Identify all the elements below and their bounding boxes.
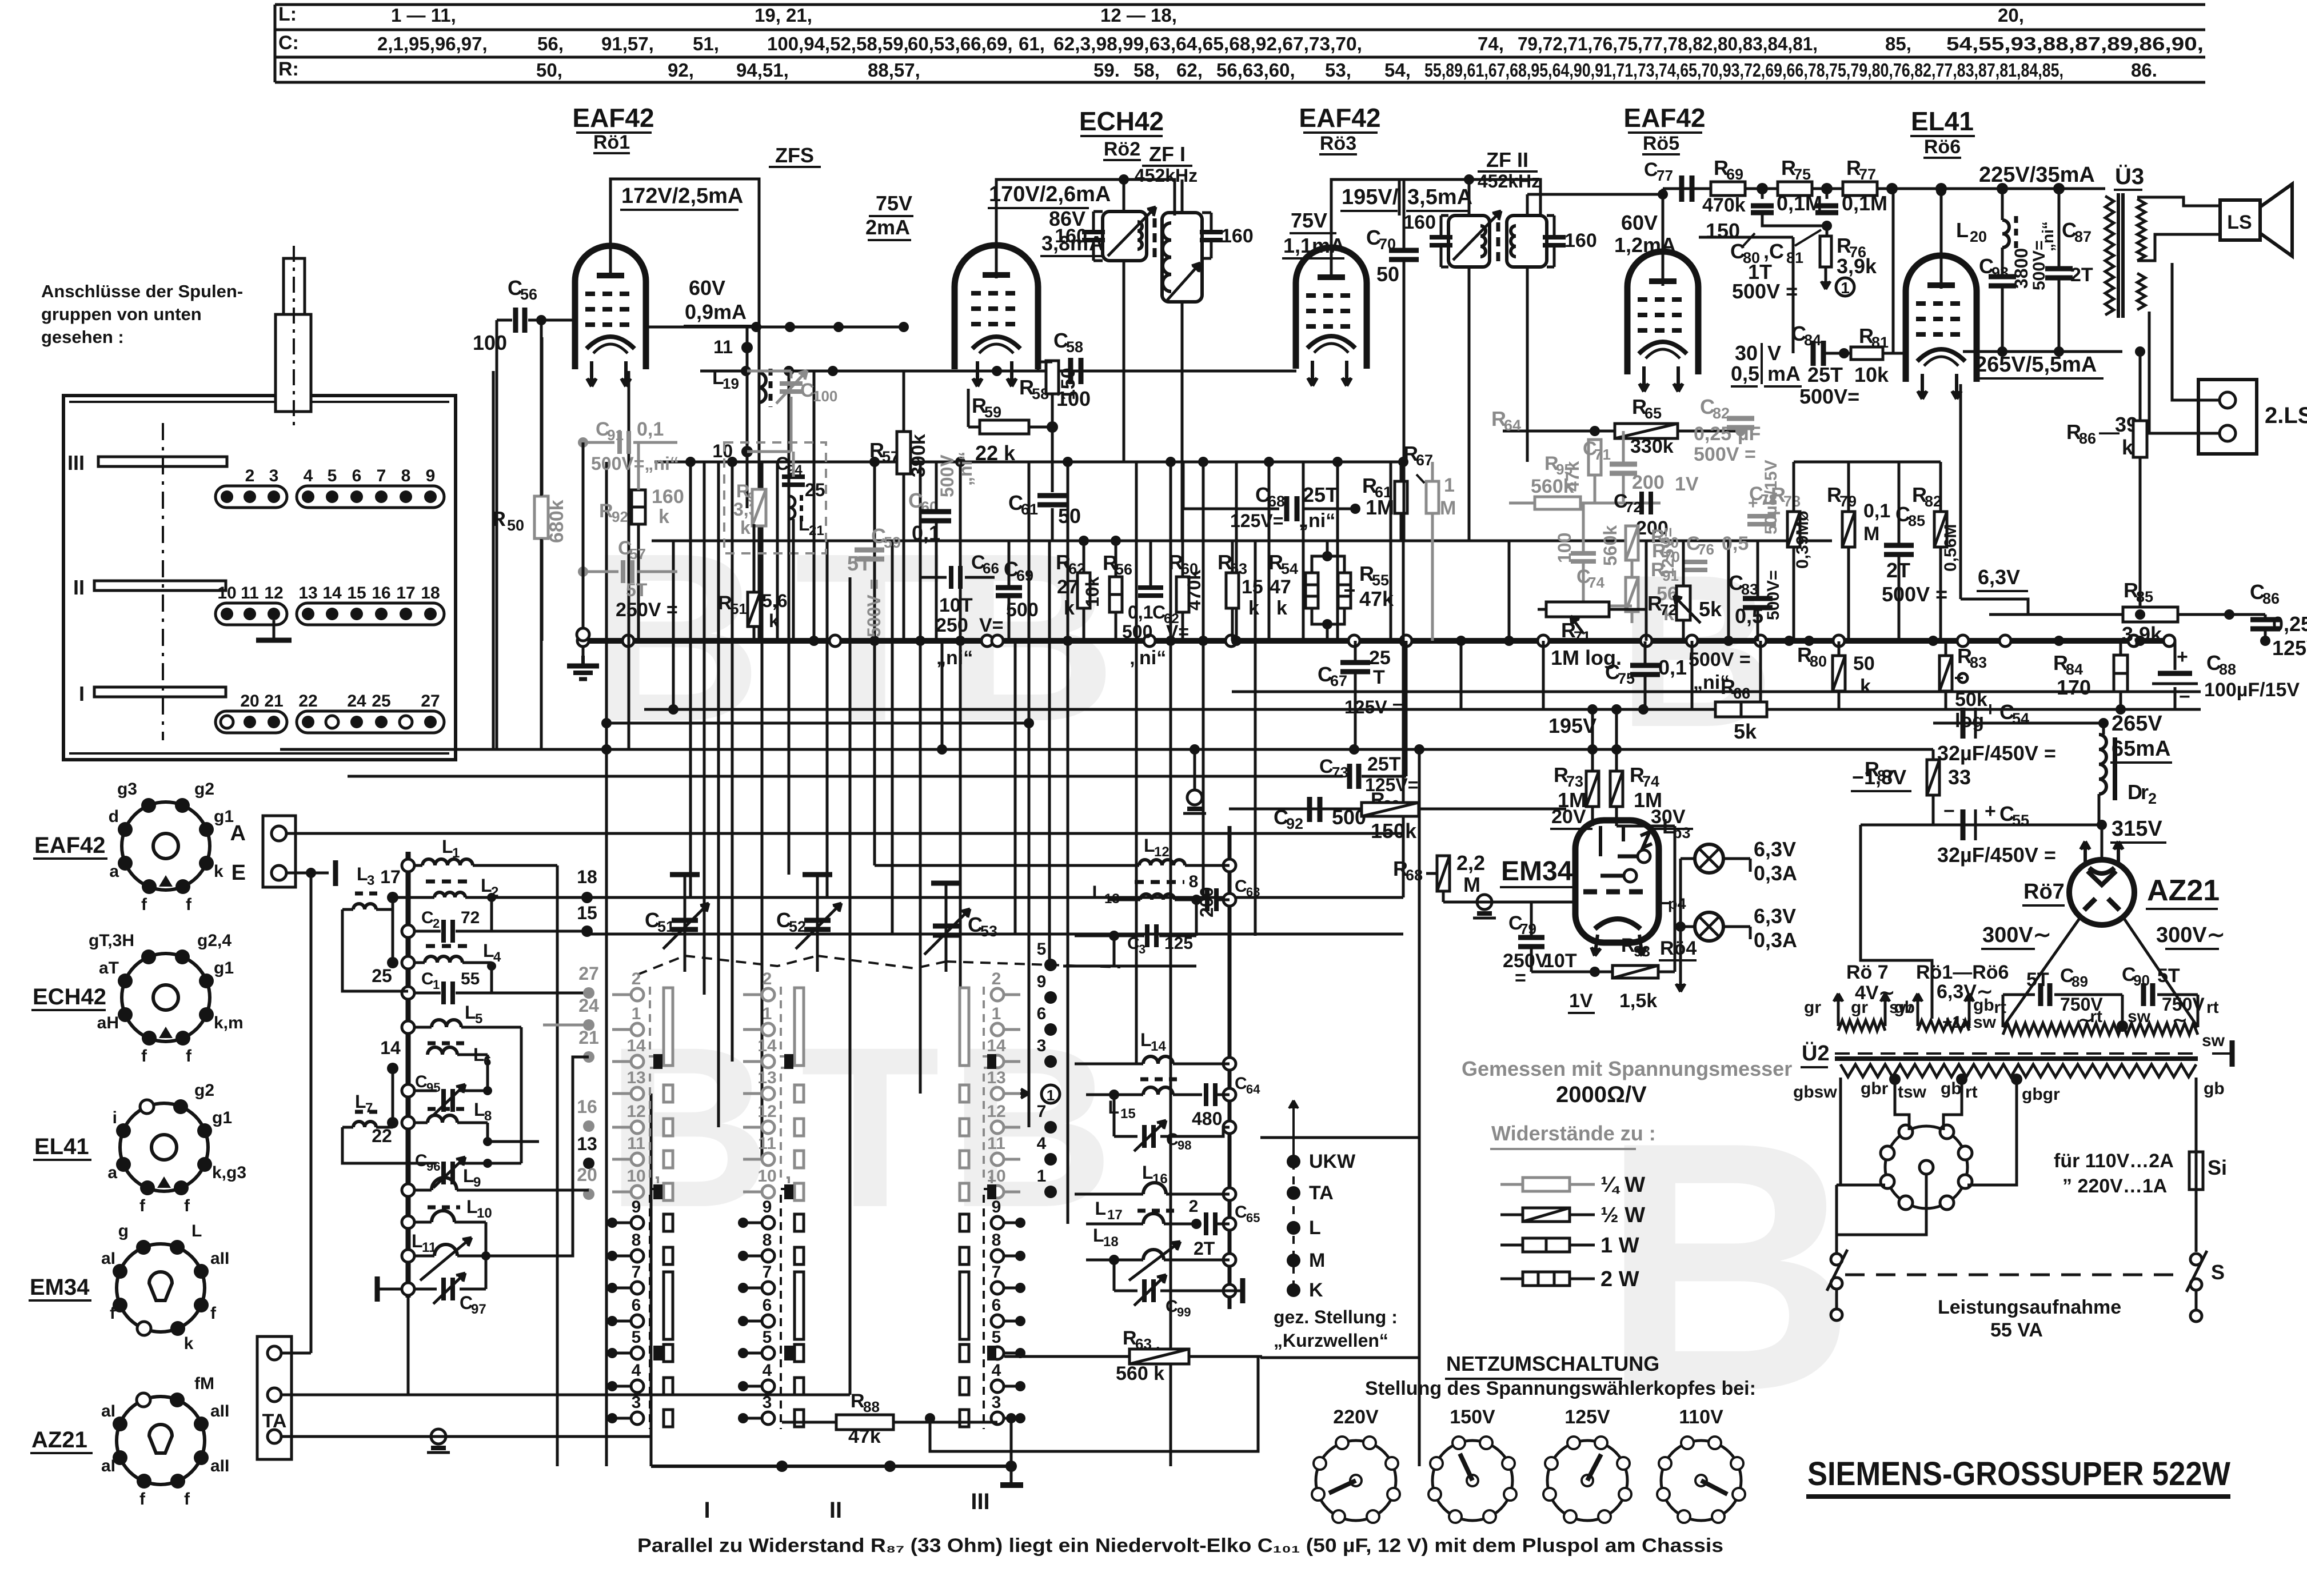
svg-text:560 k: 560 k: [1116, 1363, 1164, 1384]
ZF I tuning arrow: [1108, 207, 1156, 256]
wire R77 junction down: [1892, 189, 1895, 353]
svg-text:47k: 47k: [848, 1426, 881, 1447]
svg-text:5k: 5k: [1699, 597, 1722, 621]
svg-text:k: k: [1860, 676, 1871, 697]
node 22: [387, 1117, 398, 1128]
legend box: [1260, 1138, 1419, 1358]
svg-text:27: 27: [578, 963, 599, 984]
svg-text:11: 11: [241, 584, 259, 603]
node 27: [583, 987, 594, 999]
svg-text:SIEMENS-GROSSUPER 522W: SIEMENS-GROSSUPER 522W: [1807, 1455, 2230, 1493]
wire 17-25: [392, 897, 394, 963]
svg-text:54: 54: [1281, 560, 1298, 577]
svg-text:sw: sw: [2202, 1031, 2225, 1050]
svg-text:5T: 5T: [2026, 969, 2049, 991]
svg-text:,C: ,C: [1763, 240, 1784, 263]
svg-text:83: 83: [1741, 581, 1758, 598]
main ground bus (thick): [583, 638, 2172, 644]
wire 265V bus right: [2103, 641, 2104, 723]
svg-text:mA: mA: [1767, 362, 1801, 385]
svg-text:C: C: [1644, 159, 1658, 181]
svg-text:2: 2: [433, 916, 440, 931]
rotor rail (thick): [406, 852, 411, 1298]
svg-text:„ni“: „ni“: [1129, 647, 1166, 669]
svg-text:0,5: 0,5: [1735, 604, 1763, 628]
svg-text:1: 1: [1444, 474, 1455, 496]
wire y947: [652, 540, 1832, 542]
svg-text:27: 27: [421, 692, 440, 711]
svg-text:500V=„ni“: 500V=„ni“: [591, 453, 679, 474]
svg-text:12: 12: [1154, 844, 1170, 860]
svg-text:gb: gb: [2204, 1079, 2225, 1098]
svg-text:„Kurzwellen“: „Kurzwellen“: [1274, 1330, 1388, 1351]
antenna wire from A: [286, 832, 1403, 835]
wafer dashed body: [984, 987, 992, 1068]
svg-text:25T: 25T: [1367, 753, 1401, 775]
svg-text:24: 24: [578, 995, 599, 1016]
svg-text:330k: 330k: [1630, 436, 1674, 457]
svg-text:15: 15: [347, 584, 366, 603]
svg-text:0,1M: 0,1M: [1842, 191, 1887, 215]
svg-text:2: 2: [992, 969, 1001, 988]
svg-text:172V/2,5mA: 172V/2,5mA: [621, 184, 743, 208]
svg-text:Ü3: Ü3: [2115, 163, 2144, 189]
svg-text:C: C: [1166, 1130, 1179, 1149]
svg-text:g1: g1: [214, 959, 234, 977]
svg-text:L: L: [1095, 1198, 1106, 1219]
svg-text:L: L: [481, 875, 492, 896]
svg-text:10: 10: [987, 1167, 1005, 1186]
svg-text:200: 200: [1196, 887, 1217, 917]
svg-text:21: 21: [809, 523, 824, 538]
svg-text:L: L: [799, 514, 810, 534]
svg-text:A: A: [230, 821, 246, 845]
svg-text:+: +: [1985, 699, 1996, 720]
wire E down to TA: [310, 873, 313, 1353]
svg-text:+: +: [1748, 494, 1758, 513]
node 14: [387, 1063, 398, 1074]
svg-text:5: 5: [632, 1328, 641, 1347]
mains switch left: [1831, 1254, 1842, 1265]
svg-text:125V =: 125V =: [2272, 636, 2307, 660]
svg-text:2: 2: [632, 969, 641, 988]
node 13: [583, 1158, 594, 1169]
svg-text:4: 4: [763, 1361, 772, 1380]
svg-text:g2,4: g2,4: [197, 931, 232, 950]
svg-text:2mA: 2mA: [865, 216, 910, 239]
svg-text:85: 85: [2136, 588, 2153, 605]
svg-text:ZF II: ZF II: [1486, 148, 1528, 171]
wire C68 row: [1183, 508, 1279, 510]
svg-text:100,94,52,58,59,: 100,94,52,58,59,: [767, 33, 909, 54]
svg-text:13: 13: [757, 1068, 776, 1087]
svg-text:C: C: [1235, 1074, 1247, 1093]
node 20: [583, 1188, 594, 1200]
svg-text:85: 85: [1908, 512, 1925, 529]
svg-text:69: 69: [1016, 567, 1033, 584]
tube Rö2 ECH42: [955, 245, 1038, 369]
wire y808: [654, 461, 1403, 464]
svg-text:150k: 150k: [1371, 819, 1417, 843]
svg-text:53,: 53,: [1325, 59, 1351, 81]
svg-text:150: 150: [1706, 219, 1740, 242]
svg-text:56,63,60,: 56,63,60,: [1216, 59, 1295, 81]
svg-text:19: 19: [723, 375, 739, 392]
svg-text:54,55,93,88,87,89,86,90,: 54,55,93,88,87,89,86,90,: [1946, 33, 2204, 54]
svg-text:f: f: [184, 1196, 190, 1215]
svg-text:aII: aII: [210, 1249, 229, 1268]
svg-text:0,1: 0,1: [1128, 602, 1153, 623]
svg-text:78: 78: [1783, 493, 1801, 510]
svg-text:64: 64: [1246, 1082, 1260, 1096]
svg-text:3: 3: [1139, 942, 1145, 956]
transformer side wires: [1839, 1078, 1842, 1185]
wire y1358 C73 row: [348, 775, 1343, 778]
svg-text:74,: 74,: [1478, 33, 1504, 54]
svg-text:k: k: [769, 611, 779, 631]
svg-text:90: 90: [2133, 972, 2150, 989]
svg-text:2: 2: [763, 969, 772, 988]
svg-text:315V: 315V: [2112, 817, 2162, 841]
chassis symbol mid: [1477, 895, 1492, 909]
svg-text:51,: 51,: [693, 33, 719, 54]
circled 1 mark: [1041, 1085, 1060, 1103]
svg-text:12: 12: [626, 1102, 645, 1121]
svg-text:2 W: 2 W: [1600, 1267, 1639, 1291]
wire R64 row: [1503, 430, 1741, 433]
svg-text:59: 59: [884, 534, 901, 551]
300V wires: [2003, 917, 2081, 1027]
svg-text:3: 3: [1037, 1036, 1047, 1055]
switch wafer contacts: [1004, 993, 1020, 996]
svg-text:C:: C:: [278, 32, 299, 54]
pin group 20-21: [215, 711, 287, 733]
svg-text:560k: 560k: [1531, 476, 1574, 497]
primary taps: [1889, 1074, 1901, 1085]
svg-text:Rö4: Rö4: [1660, 937, 1697, 959]
svg-text:B: B: [949, 999, 1114, 1255]
wafer contact squares: [664, 1085, 673, 1102]
wafer index black squares: [653, 1054, 662, 1069]
svg-text:19, 21,: 19, 21,: [755, 5, 812, 26]
svg-text:k,g3: k,g3: [212, 1163, 246, 1182]
wire 18 right: [587, 896, 1403, 899]
svg-text:73: 73: [1332, 764, 1348, 781]
svg-text:68: 68: [1406, 867, 1423, 884]
svg-text:70: 70: [1663, 548, 1680, 565]
svg-text:74: 74: [1588, 574, 1604, 591]
svg-text:I: I: [704, 1498, 710, 1523]
wire EM34 bottom row: [1531, 971, 1675, 973]
svg-text:k: k: [214, 862, 223, 881]
wire R68 to EM34: [1442, 891, 1445, 902]
svg-text:20: 20: [240, 692, 259, 711]
svg-text:92: 92: [612, 508, 628, 525]
wire Rö6 cathode right: [1959, 384, 1962, 599]
svg-text:C: C: [1319, 756, 1334, 777]
svg-text:12: 12: [987, 1102, 1005, 1121]
ZF II core dashes: [1496, 222, 1500, 232]
svg-text:−: −: [2179, 686, 2190, 708]
svg-text:gr: gr: [1804, 998, 1821, 1017]
svg-text:NETZUMSCHALTUNG: NETZUMSCHALTUNG: [1446, 1352, 1659, 1375]
svg-text:160: 160: [1055, 225, 1087, 247]
svg-text:Leistungsaufnahme: Leistungsaufnahme: [1938, 1296, 2121, 1318]
svg-text:−: −: [1943, 699, 1955, 720]
svg-text:50: 50: [507, 517, 524, 534]
svg-text:Widerstände zu :: Widerstände zu :: [1491, 1122, 1656, 1145]
rail for L12 block: [1228, 826, 1232, 1309]
svg-text:22 k: 22 k: [975, 441, 1016, 465]
svg-text:M: M: [1463, 873, 1480, 896]
svg-text:21: 21: [264, 692, 283, 711]
svg-text:96: 96: [426, 1159, 440, 1174]
svg-text:4: 4: [632, 1361, 641, 1380]
svg-text:30: 30: [1735, 341, 1758, 365]
svg-text:g3: g3: [117, 780, 137, 799]
terminal 2.LS: [2198, 380, 2257, 454]
svg-text:5: 5: [1037, 940, 1047, 959]
svg-text:Si: Si: [2208, 1156, 2227, 1179]
svg-text:EM34: EM34: [30, 1275, 90, 1300]
svg-text:20: 20: [577, 1164, 597, 1185]
svg-text:75V: 75V: [1291, 209, 1327, 232]
svg-text:5T: 5T: [626, 580, 648, 600]
svg-text:2,1,95,96,97,: 2,1,95,96,97,: [377, 33, 488, 54]
svg-text:14: 14: [626, 1036, 646, 1055]
svg-text:1V: 1V: [1675, 473, 1699, 495]
svg-text:125V =: 125V =: [1344, 697, 1403, 717]
svg-text:=: =: [1745, 444, 1756, 465]
svg-text:ECH42: ECH42: [1079, 106, 1164, 136]
svg-text:„ni“: „ni“: [1299, 510, 1335, 532]
IF transformer ZF II secondary: [1507, 216, 1547, 267]
svg-text:g1: g1: [212, 1108, 232, 1127]
svg-text:300V∼: 300V∼: [2156, 923, 2225, 947]
svg-text:C: C: [415, 1151, 428, 1170]
svg-text:60V: 60V: [689, 276, 725, 300]
svg-text:62,: 62,: [1176, 59, 1203, 81]
svg-text:Rö1: Rö1: [593, 131, 630, 153]
svg-text:TA: TA: [1309, 1182, 1334, 1204]
svg-text:Rö6: Rö6: [1924, 136, 1961, 158]
svg-text:63: 63: [1246, 885, 1260, 899]
speaker wires: [2137, 196, 2138, 199]
svg-text:ECH42: ECH42: [33, 984, 106, 1010]
svg-text:3,9k: 3,9k: [1837, 254, 1877, 278]
svg-text:195V/: 195V/: [1342, 185, 1399, 209]
svg-text:gb: gb: [1941, 1079, 1962, 1098]
svg-text:C: C: [1235, 877, 1247, 896]
svg-text:9: 9: [992, 1198, 1001, 1216]
chassis bar at C99: [1230, 1290, 1243, 1292]
svg-text:27: 27: [1057, 576, 1079, 598]
svg-text:300V∼: 300V∼: [1982, 923, 2051, 947]
IF transformer ZF I secondary: [1162, 213, 1202, 302]
svg-text:67: 67: [1416, 452, 1433, 469]
svg-text:Rö 7: Rö 7: [1846, 961, 1889, 983]
capacitor C54 row: [1933, 722, 2104, 725]
pin group 13-18: [297, 603, 444, 625]
svg-text:3800: 3800: [2011, 248, 2031, 289]
svg-text:4: 4: [992, 1361, 1001, 1380]
svg-text:85,: 85,: [1885, 33, 1911, 54]
svg-text:0,9mA: 0,9mA: [685, 300, 747, 324]
svg-text:gbgr: gbgr: [2022, 1085, 2060, 1104]
svg-text:1: 1: [1841, 279, 1850, 297]
svg-text:5: 5: [992, 1328, 1001, 1347]
svg-text:3: 3: [269, 466, 279, 485]
svg-text:1: 1: [433, 977, 440, 992]
svg-text:R: R: [1123, 1327, 1137, 1349]
node 16: [583, 1120, 594, 1132]
capacitor C81: [1826, 189, 1829, 199]
svg-text:L: L: [466, 1196, 478, 1217]
dashed box R94 C94 L21: [724, 442, 826, 553]
svg-text:für 110V…2A: für 110V…2A: [2054, 1150, 2174, 1172]
svg-text:ZFS: ZFS: [775, 143, 814, 167]
svg-text:86: 86: [2079, 430, 2096, 447]
svg-text:2: 2: [2148, 790, 2157, 807]
dashed line between switches: [1845, 1274, 2185, 1276]
svg-text:91,57,: 91,57,: [601, 33, 654, 54]
svg-text:67: 67: [1330, 672, 1347, 689]
svg-text:66: 66: [983, 560, 999, 577]
svg-text:I: I: [79, 682, 85, 705]
rectifier AZ21: [2069, 860, 2134, 925]
svg-text:f: f: [184, 1490, 190, 1509]
svg-text:65: 65: [1645, 405, 1662, 422]
svg-text:6: 6: [352, 466, 362, 485]
band legend dashed arrow: [1292, 1100, 1295, 1162]
EM34 right side wire: [1674, 826, 1677, 972]
wire TA2: [281, 1394, 850, 1396]
svg-text:18: 18: [577, 867, 597, 887]
antenna stub bar: [333, 860, 338, 886]
svg-text:5: 5: [475, 1011, 482, 1027]
svg-text:p4: p4: [1668, 895, 1686, 912]
pin group 4-9: [297, 486, 444, 508]
svg-text:UKW: UKW: [1309, 1151, 1356, 1172]
svg-text:160: 160: [652, 486, 684, 508]
resistor R76: [1826, 226, 1829, 237]
wire y1265: [606, 722, 1029, 725]
svg-text:µF: µF: [1738, 423, 1761, 445]
axis dash-dot line: [162, 423, 164, 740]
svg-text:87: 87: [2074, 228, 2092, 245]
wire y1241: [644, 708, 2201, 711]
pin group 22-27: [297, 711, 444, 733]
svg-text:13: 13: [298, 584, 317, 603]
svg-text:10: 10: [217, 584, 236, 603]
svg-text:gbr: gbr: [1861, 1079, 1889, 1098]
svg-text:L: L: [1309, 1217, 1321, 1239]
svg-text:k: k: [658, 506, 669, 528]
junction dots: [685, 457, 696, 467]
svg-text:97: 97: [471, 1302, 486, 1317]
vertical wires comb: [492, 371, 495, 749]
svg-text:86.: 86.: [2131, 59, 2157, 81]
svg-text:60,53,66,69,: 60,53,66,69,: [908, 33, 1013, 54]
svg-text:0,1: 0,1: [637, 418, 664, 440]
svg-text:aII: aII: [210, 1402, 229, 1421]
svg-text:gT,3H: gT,3H: [89, 931, 134, 950]
svg-text:aII: aII: [210, 1457, 229, 1475]
svg-text:gesehen :: gesehen :: [41, 327, 124, 347]
svg-text:10: 10: [626, 1167, 645, 1186]
svg-text:9: 9: [632, 1198, 641, 1216]
svg-text:rt: rt: [2206, 998, 2219, 1017]
svg-text:89: 89: [2071, 973, 2088, 990]
svg-text:14: 14: [380, 1038, 401, 1058]
svg-text:0,1: 0,1: [1863, 500, 1890, 522]
svg-text:92: 92: [1286, 815, 1303, 832]
tube Rö1 EAF42: [575, 246, 646, 369]
svg-text:gb: gb: [1973, 996, 1994, 1015]
svg-text:66: 66: [1733, 685, 1750, 702]
wafer contact squares: [795, 1085, 804, 1102]
svg-text:390k: 390k: [908, 434, 929, 477]
svg-text:3: 3: [763, 1393, 772, 1412]
svg-text:3: 3: [632, 1393, 641, 1412]
svg-text:gruppen von unten: gruppen von unten: [41, 304, 202, 324]
svg-text:100: 100: [473, 331, 507, 354]
fuse Si: [2189, 1152, 2203, 1190]
svg-text:25: 25: [1369, 647, 1391, 669]
svg-text:T: T: [1373, 667, 1385, 688]
svg-text:f: f: [139, 1490, 146, 1509]
svg-text:11: 11: [627, 1134, 645, 1153]
svg-text:6: 6: [992, 1296, 1001, 1315]
svg-text:LS: LS: [2227, 212, 2252, 233]
svg-text:99: 99: [1177, 1305, 1191, 1319]
svg-text:9: 9: [426, 466, 436, 485]
svg-text:g2: g2: [194, 1081, 214, 1100]
svg-text:EM34: EM34: [1501, 856, 1573, 887]
svg-text:52: 52: [789, 918, 806, 935]
wire left col power: [1861, 825, 1932, 1019]
svg-text:18: 18: [421, 584, 440, 603]
ZF II wires: [1468, 179, 1471, 216]
svg-text:V=: V=: [1166, 621, 1189, 642]
svg-text:25: 25: [372, 965, 392, 986]
svg-text:K: K: [1309, 1279, 1323, 1301]
svg-text:47: 47: [1270, 576, 1291, 598]
svg-text:5: 5: [328, 466, 337, 485]
svg-text:11: 11: [758, 1134, 776, 1153]
choke Dr2: [2099, 735, 2106, 794]
svg-text:86: 86: [2262, 590, 2280, 607]
svg-text:gb: gb: [1894, 998, 1915, 1017]
tube Rö5 EAF42: [1627, 252, 1698, 374]
wire C58 line: [700, 370, 1296, 373]
wire C92 row: [1229, 808, 1566, 811]
italic Z mark: [1641, 832, 1652, 848]
wire C56/C91 col: [582, 442, 585, 635]
svg-text:560k: 560k: [1600, 525, 1621, 566]
wire Rö5 anode: [1662, 189, 1665, 286]
svg-text:1: 1: [1047, 1087, 1055, 1104]
svg-text:i: i: [113, 1108, 117, 1127]
node 24: [583, 1019, 594, 1031]
svg-text:13: 13: [626, 1068, 645, 1087]
svg-text:aI: aI: [101, 1249, 115, 1268]
svg-text:k: k: [1276, 597, 1287, 619]
terminal TA box: [257, 1336, 292, 1459]
wire TA1: [281, 1352, 311, 1355]
svg-text:0,39Mø: 0,39Mø: [1793, 510, 1812, 569]
svg-text:50: 50: [1853, 653, 1875, 675]
